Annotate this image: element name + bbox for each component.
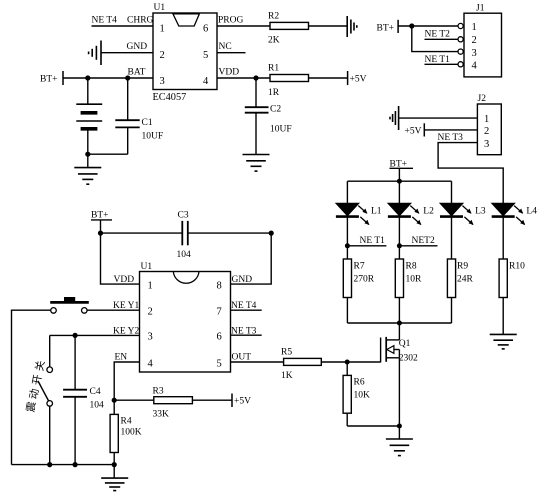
svg-text:动: 动 [28,388,42,400]
svg-text:PROG: PROG [218,16,243,26]
wire NE T2 to J1 pin2 [425,38,459,40]
resistor R1 [270,75,309,82]
stub U1 pin5 NC [217,52,246,54]
wire BT+ rail to C3 left [101,232,183,234]
net label BT+ (LED rail) [390,160,414,170]
wire U1B OUT to R5 [231,361,284,363]
svg-text:+5V: +5V [234,397,251,407]
svg-text:L2: L2 [423,207,434,217]
wire BT+ to U1 pin3 BAT [63,77,153,79]
svg-text:104: 104 [177,250,192,260]
svg-text:R10: R10 [509,262,525,272]
wire button left to left bus [12,310,51,464]
resistor R10 [499,259,507,298]
wire EN to R3 [114,399,154,401]
svg-text:10UF: 10UF [142,132,164,142]
wire LED anode rail [347,180,451,182]
wire NE T3 stub [231,334,262,336]
svg-text:EC4057: EC4057 [153,92,187,103]
svg-text:4: 4 [203,76,209,87]
svg-text:4: 4 [472,61,478,72]
connector J1 [464,13,502,77]
svg-text:1: 1 [484,114,489,125]
resistor R3 [154,397,193,404]
svg-text:U1: U1 [141,262,153,272]
IC U1 charger EC4057 body [153,13,217,90]
node vibration switch bottom [47,462,52,467]
LED L1 [336,181,370,246]
node C4 bottom [73,462,78,467]
capacitor C1 [115,78,139,154]
wire button right to U1B pin2 KE Y1 [87,309,140,311]
svg-text:2: 2 [484,126,489,137]
svg-text:R4: R4 [121,417,132,427]
svg-text:R9: R9 [457,262,468,272]
svg-text:104: 104 [90,401,105,411]
node Q1 source junction [397,424,402,429]
wire BT+ drop to rail [398,168,400,181]
svg-text:2: 2 [472,35,477,46]
svg-text:2K: 2K [268,36,280,46]
svg-text:24R: 24R [457,275,474,285]
capacitor C3 [182,221,188,245]
ground below Q1 [386,439,413,456]
svg-text:1: 1 [148,281,153,292]
resistor R2 [270,22,309,29]
svg-text:NET2: NET2 [412,236,435,246]
node rail at L2 [397,179,402,184]
svg-text:1: 1 [472,22,477,33]
svg-text:GND: GND [127,42,148,52]
svg-text:2: 2 [148,307,153,318]
LED L3 [440,181,474,259]
svg-text:Q1: Q1 [399,339,411,349]
svg-text:1: 1 [160,24,165,35]
svg-text:+5V: +5V [350,75,367,85]
svg-text:3: 3 [472,48,477,59]
node C1 tap [125,75,130,80]
wire +5V to J2 pin2 [424,129,477,131]
svg-text:NE T1: NE T1 [425,55,451,65]
svg-text:J1: J1 [476,4,485,14]
wire U1 PROG to R2 [217,25,270,27]
svg-text:5: 5 [203,50,208,61]
svg-text:L3: L3 [475,207,486,217]
J1 pin 3 circle [458,49,463,54]
node EN junction [112,398,117,403]
ground (rotated) after R2 [347,16,357,37]
wire down to U1B pin8 GND [231,233,272,284]
connector J2 [477,104,501,155]
wire R8 bottom to rail [398,298,400,324]
node battery tap [85,75,90,80]
wire NE T4 to U1 pin1 [92,25,154,27]
svg-text:3: 3 [160,76,165,87]
node BT+ corner [98,231,103,236]
J1 pin 2 circle [458,37,463,42]
capacitor C4 [63,335,87,464]
svg-text:R3: R3 [153,387,164,397]
power +5V after R1 [348,71,367,85]
svg-text:J2: J2 [478,94,487,104]
svg-text:R6: R6 [354,378,365,388]
svg-text:C1: C1 [142,118,153,128]
wire R9 bottom to rail [451,298,453,324]
wire NE T1 underline [347,245,386,247]
svg-text:2302: 2302 [399,354,418,364]
svg-text:+5V: +5V [405,126,422,136]
pushbutton S1 [50,297,89,313]
svg-text:R8: R8 [406,262,417,272]
svg-text:33K: 33K [153,410,170,420]
wire R10 to ground [502,298,504,335]
svg-text:EN: EN [115,353,128,363]
svg-text:BT+: BT+ [377,24,395,34]
svg-text:BAT: BAT [128,68,146,78]
svg-text:R2: R2 [268,12,279,22]
wire R3 to +5V [192,399,232,401]
ground below R10 [490,334,517,349]
svg-text:C2: C2 [270,105,281,115]
J1 pin 1 circle [458,23,463,28]
svg-text:R7: R7 [354,262,365,272]
svg-text:R1: R1 [268,64,279,74]
svg-text:C4: C4 [90,387,101,397]
wire R2 to ground [309,25,348,27]
svg-text:4: 4 [148,359,154,370]
svg-text:270R: 270R [354,275,375,285]
power +5V after R3 [232,394,251,408]
svg-text:1K: 1K [281,371,293,381]
resistor R6 [343,362,351,426]
ground below C2 [243,155,270,172]
power BT+ terminal (J1) [377,20,399,34]
svg-text:L1: L1 [371,207,382,217]
wire ground to U1 pin2 [101,52,153,54]
wire EN from U1B pin4 [114,362,139,400]
resistor R5 [284,358,322,365]
svg-text:10K: 10K [354,391,371,401]
wire down to U1B pin1 VDD [101,233,140,284]
svg-text:3: 3 [484,139,489,150]
node C4 tap [73,333,78,338]
node R6 tap [345,360,350,365]
node R4 bottom [112,462,117,467]
wire NE T1 to J1 pin4 [425,63,459,65]
svg-text:CHRG: CHRG [127,16,154,26]
node rail to Q1 drain [397,321,402,326]
svg-text:开: 开 [32,374,45,386]
vibration switch label 震动开关 [25,359,48,413]
LED L4 [492,203,526,259]
net label BT+ (C3 rail) [91,211,112,234]
wire R6 bottom to Q1 source [347,425,399,427]
wire U1 VDD to +5V [217,77,348,79]
svg-text:R5: R5 [281,348,292,358]
svg-text:7: 7 [217,307,222,318]
wire NE T4 stub [231,309,262,311]
svg-text:5: 5 [217,359,222,370]
J1 pin 4 circle [458,62,463,67]
svg-text:1R: 1R [268,88,280,98]
svg-text:NC: NC [219,42,232,52]
wire LED cathode rail [347,322,451,324]
wire J2 pin3 to LED L4 [438,143,503,204]
ground (rotated) at J2 pin1 [390,106,399,130]
wire battery bottom to C1 bottom [88,153,128,155]
wire KE Y2 row [50,334,140,336]
svg-text:6: 6 [217,332,222,343]
wire BT+ branch to J1 pin3 [412,26,458,52]
resistor R4 [110,400,118,464]
wire R7 bottom to rail [346,298,348,324]
svg-text:L4: L4 [526,207,537,217]
wire C3 right to GND corner [188,232,271,234]
capacitor C2 [245,78,269,155]
svg-text:10R: 10R [406,275,423,285]
wire ground to J2 pin1 [399,117,478,119]
wire R5 to Q1 gate [321,361,380,363]
svg-text:2: 2 [160,50,165,61]
resistor R9 [447,259,455,298]
IC U1B controller body [140,272,231,373]
node GND corner [269,231,274,236]
wire L1 cathode to R7 [346,246,348,259]
battery B1 [76,78,102,154]
node L2 cathode tap [397,243,402,248]
wire R4 junction to ground [113,465,115,479]
ground below battery [74,154,101,184]
node C2 tap [253,75,258,80]
svg-text:10UF: 10UF [270,125,292,135]
power BT+ terminal (battery) [40,71,63,85]
resistor R7 [343,259,351,298]
svg-text:U1: U1 [154,3,166,13]
wire source to ground [398,426,400,439]
node BT+ branch [409,23,414,28]
ground (rotated) at U1 GND pin [89,41,101,66]
svg-text:6: 6 [203,24,208,35]
svg-text:NE T1: NE T1 [360,236,386,246]
wire BT+ to J1 pin1 [398,25,458,27]
svg-text:3: 3 [148,332,153,343]
vibration switch [38,335,53,464]
svg-text:BT+: BT+ [40,75,58,85]
svg-text:C3: C3 [178,211,189,221]
transistor Q1 MOSFET 2302 [381,323,400,426]
node L1 cathode tap [345,243,350,248]
svg-text:VDD: VDD [219,68,240,78]
svg-text:8: 8 [217,281,222,292]
ground below R4 [101,478,128,491]
resistor R8 [395,259,403,298]
LED L2 [388,181,422,246]
svg-text:100K: 100K [121,428,142,438]
wire bottom rail [12,464,115,466]
power +5V at J2 pin2 [405,123,425,136]
svg-text:NE T3: NE T3 [438,133,464,143]
svg-text:BT+: BT+ [91,211,109,221]
svg-text:NE T4: NE T4 [92,16,118,26]
wire L2 cathode to R8 [398,246,400,259]
svg-text:OUT: OUT [232,353,252,363]
svg-text:NE T2: NE T2 [425,30,451,40]
wire NET2 underline [399,245,437,247]
node battery bottom [85,152,90,157]
